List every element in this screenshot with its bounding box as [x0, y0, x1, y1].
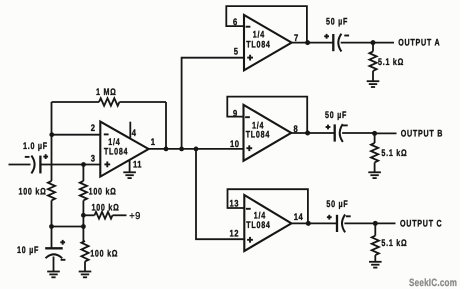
node junction dot +9 branch	[81, 213, 86, 218]
resistor R7 5.1k load B	[371, 133, 407, 171]
node bus dot 1 (feedback)	[164, 147, 169, 152]
resistor R2 1 MOhm feedback	[52, 87, 167, 106]
node output B dot	[305, 131, 310, 136]
resistor R1 100k from input node to ground rail	[19, 181, 56, 227]
ground under R7	[368, 172, 381, 178]
svg-text:1 MΩ: 1 MΩ	[96, 87, 117, 98]
svg-text:100 kΩ: 100 kΩ	[19, 187, 47, 198]
svg-text:9: 9	[233, 109, 238, 120]
pin 11 stub and label	[130, 160, 142, 172]
svg-text:100 kΩ: 100 kΩ	[90, 248, 118, 259]
svg-text:1.0 µF: 1.0 µF	[23, 141, 48, 152]
svg-text:3: 3	[91, 153, 96, 164]
wire: dropper to op-amp C pin 12	[196, 149, 244, 239]
wire: 1M rail drop to output bus	[165, 102, 167, 149]
svg-text:100 kΩ: 100 kΩ	[89, 187, 117, 198]
svg-text:100 kΩ: 100 kΩ	[92, 203, 120, 214]
wire: feedback loop op-amp C	[228, 189, 308, 223]
ground at pin 11	[123, 172, 136, 178]
op-amp U1d (C) 1/4 TL084	[244, 195, 291, 251]
wire: output B segment	[291, 132, 334, 134]
ground under R5	[79, 272, 92, 278]
capacitor C5 50 uF output C	[326, 199, 350, 232]
node output A dot	[305, 40, 310, 45]
svg-text:5.1 kΩ: 5.1 kΩ	[381, 238, 407, 249]
op-amp U1a 1/4 TL084	[100, 122, 148, 177]
wire: vertical riser x=51.5 from 1M rail down to R1	[51, 102, 53, 181]
wire: stub to OUTPUT A text	[373, 42, 394, 44]
svg-text:5.1 kΩ: 5.1 kΩ	[378, 57, 404, 68]
svg-text:50 µF: 50 µF	[326, 199, 348, 210]
svg-text:OUTPUT A: OUTPUT A	[398, 38, 440, 49]
ground under 10uF	[47, 272, 60, 278]
svg-text:+9: +9	[129, 211, 141, 222]
ground under R8	[369, 262, 382, 268]
svg-text:TL084: TL084	[104, 147, 128, 158]
pin 4 stub and label	[130, 122, 136, 139]
svg-text:SeekIC.com: SeekIC.com	[409, 277, 457, 289]
wire: pin 2 inverting input	[52, 134, 101, 136]
svg-text:OUTPUT B: OUTPUT B	[401, 129, 443, 140]
svg-text:TL084: TL084	[246, 220, 270, 231]
svg-text:4: 4	[132, 128, 137, 139]
svg-text:OUTPUT C: OUTPUT C	[400, 218, 442, 229]
wire: output bus pin1 to pin10	[149, 148, 244, 150]
wire: riser to op-amp A pin 5	[182, 58, 244, 149]
ground under R6	[367, 81, 380, 87]
op-amp U1b (A) 1/4 TL084	[244, 15, 292, 70]
capacitor C3 50 uF output A	[324, 17, 349, 52]
node dot before OUTPUT B	[372, 131, 377, 136]
wire: cap B to output node	[342, 132, 375, 134]
node A junction dot at pin3 wire	[81, 162, 86, 167]
wire: input line from left to 1.0uF cap	[9, 164, 31, 166]
node junction dot bottom rail right	[81, 224, 86, 229]
resistor R4 100k to +9 supply	[83, 203, 126, 219]
capacitor C2 10 uF polarized bypass	[17, 227, 65, 272]
wire: stub to OUTPUT B text	[375, 132, 397, 134]
svg-text:11: 11	[133, 160, 142, 171]
resistor R3 100k from pin3 node down	[80, 165, 117, 242]
node output C dot	[306, 221, 311, 226]
svg-text:2: 2	[91, 123, 96, 134]
wire: cap A to output node	[341, 42, 373, 44]
svg-text:10 µF: 10 µF	[17, 245, 39, 256]
svg-text:14: 14	[294, 212, 304, 223]
node bus dot 2 (to opamp A)	[179, 147, 184, 152]
node junction dot pin2 branch	[49, 132, 54, 137]
capacitor C1 1.0 uF polarized input cap	[23, 141, 48, 173]
capacitor C4 50 uF output B	[325, 110, 348, 142]
wire: horizontal tie between bias chain and 10uF	[52, 226, 84, 228]
svg-text:10: 10	[230, 139, 239, 150]
wire: stub to OUTPUT C text	[375, 222, 395, 224]
wire: cap to pin3 node, crossing vertical riser	[42, 164, 101, 166]
svg-text:50 µF: 50 µF	[326, 17, 348, 28]
node dot before OUTPUT C	[373, 221, 378, 226]
resistor R8 5.1k load C	[372, 223, 408, 261]
wire: output C segment	[291, 222, 336, 224]
svg-text:50 µF: 50 µF	[325, 110, 347, 121]
svg-text:TL084: TL084	[246, 130, 270, 141]
op-amp U1c (B) 1/4 TL084	[244, 105, 292, 161]
svg-text:5.1 kΩ: 5.1 kΩ	[381, 148, 407, 159]
svg-text:TL084: TL084	[246, 40, 270, 51]
resistor R6 5.1k load A	[369, 43, 404, 81]
resistor R5 100k lower bias	[81, 241, 118, 271]
node junction dot bottom rail left	[49, 224, 54, 229]
svg-text:12: 12	[230, 228, 239, 239]
wire: output A segment	[292, 42, 333, 44]
node bus dot 3 (to opamp C)	[194, 147, 199, 152]
node dot before OUTPUT A	[371, 40, 376, 45]
wire: cap C to output node	[344, 222, 375, 224]
svg-text:5: 5	[234, 47, 239, 58]
wire: feedback loop op-amp B	[227, 97, 307, 133]
svg-text:1: 1	[151, 137, 156, 148]
wire: feedback loop op-amp A	[226, 6, 307, 43]
